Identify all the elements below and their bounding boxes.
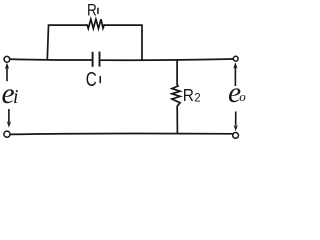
svg-text:i: i xyxy=(13,87,18,108)
svg-text:C: C xyxy=(86,68,97,91)
svg-text:o: o xyxy=(239,89,246,104)
svg-text:R: R xyxy=(87,1,97,20)
svg-text:R: R xyxy=(183,85,194,105)
svg-text:2: 2 xyxy=(194,92,200,104)
